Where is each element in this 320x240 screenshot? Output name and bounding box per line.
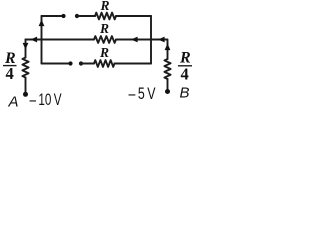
- svg-text:4: 4: [181, 65, 189, 84]
- wire: branch B below resistor to node B: [167, 79, 169, 91]
- wire: row3 from switch to resistor R (bottom): [81, 63, 94, 65]
- svg-text:R: R: [99, 45, 109, 60]
- resistor R middle (zigzag): [94, 36, 116, 43]
- arrow: current left on middle row (far right): [158, 37, 165, 43]
- wire: branch A vertical from middle row corner: [25, 40, 27, 58]
- wire: left bus vertical: [41, 16, 43, 64]
- resistor R/4 left (vertical zigzag): [22, 58, 28, 78]
- label R/4 left: fraction bar: [3, 65, 17, 67]
- switch S2 left terminal dot: [68, 61, 72, 65]
- resistor R bottom row (zigzag): [94, 60, 115, 67]
- svg-text:– 10 V: – 10 V: [30, 90, 62, 109]
- arrow: current left on middle row (mid-right): [131, 37, 138, 43]
- svg-text:– 5 V: – 5 V: [129, 84, 156, 103]
- wire: middle row left end from node corner: [26, 39, 95, 41]
- resistor R top (zigzag): [95, 13, 116, 20]
- svg-text:B: B: [180, 85, 190, 102]
- switch S1 right terminal dot: [75, 14, 79, 18]
- svg-text:A: A: [8, 94, 19, 111]
- arrow: current up left bus: [39, 20, 45, 27]
- node B terminal dot: [165, 89, 170, 94]
- wire: row3 left segment from left bus corner: [42, 63, 71, 65]
- wire: row1 right segment to right bus: [116, 15, 151, 17]
- svg-text:R: R: [100, 0, 110, 13]
- wire: middle row right segment to B branch corner: [116, 40, 168, 44]
- wire: row1 left segment from left bus corner: [42, 15, 64, 17]
- arrow: current left on middle row (left): [31, 37, 38, 43]
- wire: branch B vertical below corner with up arrow: [167, 44, 169, 60]
- wire: branch A below resistor to node A: [25, 78, 27, 95]
- arrow: current down into branch A: [23, 43, 29, 50]
- switch S1 left terminal dot: [61, 14, 65, 18]
- svg-text:4: 4: [6, 64, 14, 83]
- svg-text:R: R: [99, 21, 109, 36]
- wire: row3 right segment to right bus: [115, 63, 152, 65]
- resistor R/4 right (vertical zigzag): [164, 59, 170, 79]
- switch S2 right terminal dot: [79, 61, 83, 65]
- wire: right bus vertical: [150, 16, 152, 64]
- wire: row1 from switch to resistor R (top): [77, 15, 95, 17]
- arrow: current up branch B: [165, 44, 171, 51]
- label R/4 right: fraction bar: [178, 65, 192, 67]
- node A terminal dot: [23, 92, 28, 97]
